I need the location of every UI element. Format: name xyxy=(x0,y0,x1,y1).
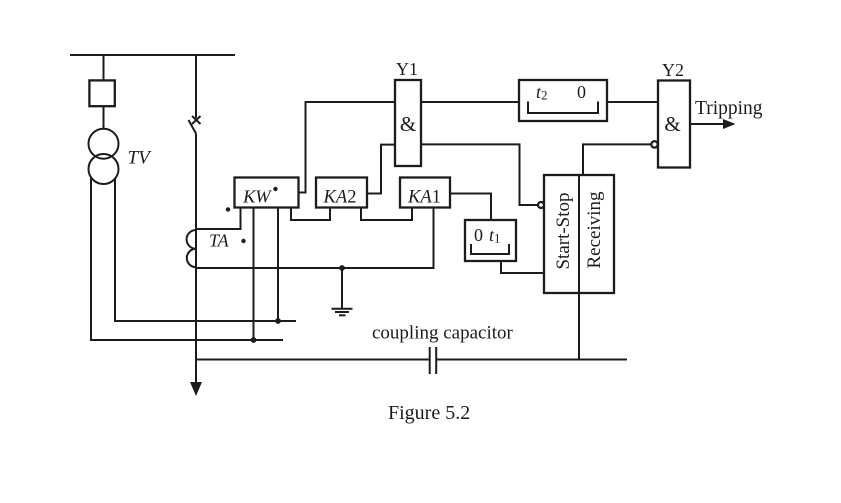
wire: Y2 output Tripping arrow xyxy=(690,119,736,129)
svg-text:&: & xyxy=(664,112,680,136)
junction dot KW lead 2 xyxy=(275,318,281,324)
svg-text:TA: TA xyxy=(209,231,230,251)
wire: KW left output to TA xyxy=(196,207,241,229)
svg-text:Y1: Y1 xyxy=(396,59,418,79)
inverting input circle Start-Stop xyxy=(538,202,544,208)
wire: t2 output to Y2 xyxy=(607,101,658,103)
wire: coupling line left xyxy=(196,359,429,361)
svg-text:TV: TV xyxy=(128,148,153,169)
svg-text:Figure 5.2: Figure 5.2 xyxy=(388,402,470,424)
transceiver Start-Stop / Receiving xyxy=(544,175,614,293)
junction dot ground wire xyxy=(339,265,345,271)
svg-text:KA2: KA2 xyxy=(323,188,357,208)
wire: t1 output to Start-Stop xyxy=(501,261,544,273)
timer t1 xyxy=(465,220,516,261)
wire: busbar xyxy=(70,54,235,56)
current transformer TA xyxy=(187,230,196,267)
junction dot KW lead 1 xyxy=(251,337,257,343)
wire: TV secondary lead right xyxy=(115,179,296,322)
ground xyxy=(332,268,353,315)
wire: KW output to Y1 input xyxy=(299,102,396,193)
breaker QF (open switch) xyxy=(189,55,201,384)
wire: coupling line right xyxy=(437,359,627,361)
wire: KA2 to KA1 xyxy=(361,207,412,220)
wire: KW bottom lead 1 xyxy=(253,207,255,340)
wire: common ground wire from TA xyxy=(196,207,434,268)
wire: TV primary lead xyxy=(103,55,105,129)
arrow to line (feeder) xyxy=(190,382,202,396)
wire: KA1 output to t1 timer xyxy=(450,194,491,221)
svg-text:&: & xyxy=(400,112,416,136)
transformer TV xyxy=(89,129,119,184)
svg-text:Start-Stop: Start-Stop xyxy=(553,192,574,269)
wire: Start-Stop output to Y2 inverting input xyxy=(583,144,651,175)
gate Y1 xyxy=(395,80,421,166)
wire: KW bottom lead 2 xyxy=(277,207,279,321)
svg-text:KA1: KA1 xyxy=(407,188,441,208)
gate Y2 xyxy=(658,81,690,168)
wire: Y1 lower output to Start-Stop xyxy=(421,144,538,205)
svg-text:0: 0 xyxy=(474,225,483,245)
svg-text:KW: KW xyxy=(242,187,272,207)
fuse FU xyxy=(89,80,114,106)
wire: Y1 output to t2 xyxy=(421,101,519,103)
svg-text:0: 0 xyxy=(577,82,586,102)
inverting input circle Y2 xyxy=(651,141,657,147)
svg-text:coupling capacitor: coupling capacitor xyxy=(372,323,514,344)
wire: KA2 output to Y1 input xyxy=(367,145,395,194)
polarity dot TA xyxy=(241,239,245,243)
wire: KW to KA2 xyxy=(291,207,330,220)
polarity dot KW internal xyxy=(273,187,277,191)
polarity dot KW external xyxy=(226,207,230,211)
timer t2 xyxy=(519,80,607,121)
wire: TV secondary lead left xyxy=(91,178,283,341)
relay KW xyxy=(235,178,299,208)
svg-text:Y2: Y2 xyxy=(662,60,684,80)
svg-text:Tripping: Tripping xyxy=(695,98,763,119)
relay KA1 xyxy=(400,178,450,208)
wire: Start-Stop bottom to coupling line xyxy=(578,293,580,360)
relay KA2 xyxy=(316,178,367,208)
coupling capacitor xyxy=(430,347,437,374)
svg-text:Receiving: Receiving xyxy=(584,191,605,269)
